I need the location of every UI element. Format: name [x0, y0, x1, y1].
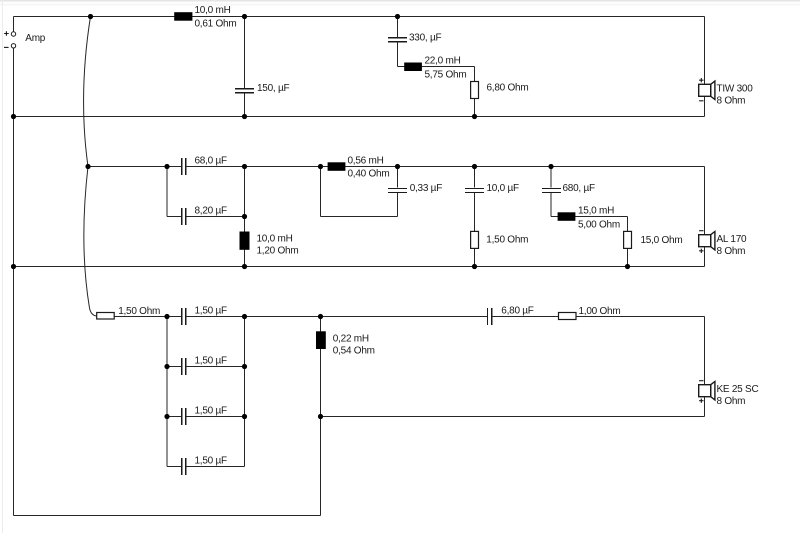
node junction mid return / 15ohm branch	[625, 264, 630, 269]
wire speaker return rail	[321, 416, 705, 418]
node junction feed curve / mid rail	[85, 164, 90, 169]
svg-text:1,50 µF: 1,50 µF	[195, 305, 228, 316]
wire bottom bus	[14, 515, 321, 517]
capacitor 1,50uF row4	[181, 458, 183, 475]
wire right bus mid section	[704, 167, 706, 267]
node junction caps right row2	[242, 364, 247, 369]
speaker TIW 300	[711, 81, 715, 99]
svg-text:1,50 µF: 1,50 µF	[195, 405, 228, 416]
speaker TIW minus sign	[699, 100, 703, 102]
capacitor 680uF	[542, 187, 561, 189]
node junction caps left row2	[164, 364, 169, 369]
wire left bus upper	[13, 17, 15, 32]
wire left bus lower	[13, 48, 15, 516]
svg-text:150, µF: 150, µF	[257, 83, 290, 94]
wire 0.33 cap vert	[397, 167, 399, 188]
amp plus sign	[4, 31, 9, 36]
wire cap row2	[167, 366, 181, 368]
svg-text:0,56 mH: 0,56 mH	[348, 155, 384, 166]
resistor 15,0 Ohm	[624, 231, 632, 248]
node junction minus bus / mid return rail	[11, 264, 16, 269]
node junction top rail / 330uF branch	[395, 14, 400, 19]
svg-text:5,75 Ohm: 5,75 Ohm	[425, 70, 467, 81]
resistor 1,50 Ohm mid	[471, 231, 479, 248]
speaker AL minus sign	[699, 230, 703, 232]
capacitor 1,50uF row1	[181, 308, 183, 325]
svg-text:15,0 mH: 15,0 mH	[578, 205, 614, 216]
svg-text:68,0 µF: 68,0 µF	[195, 155, 228, 166]
wire cap row3	[167, 416, 181, 418]
svg-text:5,00 Ohm: 5,00 Ohm	[578, 219, 620, 230]
resistor 1,50 Ohm horizontal	[97, 313, 115, 320]
svg-text:1,50 µF: 1,50 µF	[195, 455, 228, 466]
speaker TIW plus sign	[699, 78, 703, 82]
svg-text:1,50 µF: 1,50 µF	[195, 355, 228, 366]
wire 680uF branch	[550, 167, 552, 188]
wire caps array left vert	[166, 317, 168, 467]
wire right bus bottom section	[704, 317, 706, 417]
svg-text:1,50 Ohm: 1,50 Ohm	[486, 235, 528, 246]
resistor 6,80 Ohm	[471, 82, 479, 99]
wire curved feed	[84, 17, 97, 317]
node junction 8.2uF row / 10mH branch	[242, 214, 247, 219]
node junction mid rail / 10uF branch	[472, 164, 477, 169]
svg-text:8 Ohm: 8 Ohm	[717, 396, 746, 407]
resistor 1,00 Ohm horizontal	[559, 313, 577, 320]
svg-text:10,0 mH: 10,0 mH	[195, 5, 231, 16]
inductor L 0,22mH 0,54Ohm vertical	[316, 331, 326, 349]
node junction caps right row3	[242, 414, 247, 419]
speaker AL 170	[711, 232, 715, 250]
wire 0.33 loop left vert	[320, 167, 322, 217]
capacitor 330uF	[388, 37, 407, 39]
wire top rail	[14, 16, 705, 18]
svg-text:330, µF: 330, µF	[409, 32, 442, 43]
capacitor 6,80uF	[486, 308, 488, 325]
svg-text:1,50 Ohm: 1,50 Ohm	[118, 306, 160, 317]
node junction bottom rail / caps left	[164, 314, 169, 319]
wire mid rail	[88, 166, 181, 168]
inductor L 22,0mH 5,75Ohm	[404, 63, 422, 72]
window border left	[2, 0, 4, 533]
svg-text:TIW 300: TIW 300	[717, 84, 754, 95]
node junction top rail / feed curve	[88, 14, 93, 19]
node junction top rail / 150uF branch	[242, 14, 247, 19]
svg-text:Amp: Amp	[25, 33, 46, 44]
speaker KE 25 SC	[711, 382, 715, 400]
node junction top return / 150uF branch	[242, 114, 247, 119]
svg-text:KE 25 SC: KE 25 SC	[717, 384, 759, 395]
capacitor 150uF	[235, 88, 254, 90]
svg-text:6,80 µF: 6,80 µF	[501, 306, 534, 317]
wire 10mH branch	[244, 167, 246, 267]
wire caps array right vert	[244, 317, 246, 467]
node junction caps left row3	[164, 414, 169, 419]
node junction mid rail / 68uF-8.2uF left	[164, 164, 169, 169]
speaker AL plus sign	[699, 249, 703, 253]
capacitor 1,50uF row2	[181, 358, 183, 375]
svg-text:10,0 µF: 10,0 µF	[487, 183, 520, 194]
wire 6.8ohm branch	[474, 67, 476, 117]
node junction 0.22mH branch / KE return rail	[318, 414, 323, 419]
node junction mid return / 10mH branch	[242, 264, 247, 269]
wire 0.22mH branch	[320, 317, 322, 516]
node junction mid rail / 0.56mH left	[318, 164, 323, 169]
node junction mid rail / 0.33uF right	[395, 164, 400, 169]
wire top-section bottom rail	[14, 116, 705, 118]
node junction bottom rail / caps right	[242, 314, 247, 319]
inductor L 0,56mH	[328, 162, 346, 171]
inductor L 10,0mH 0,61Ohm	[174, 12, 192, 21]
svg-text:22,0 mH: 22,0 mH	[425, 56, 461, 67]
svg-text:0,40 Ohm: 0,40 Ohm	[348, 168, 390, 179]
svg-text:0,33 µF: 0,33 µF	[410, 183, 443, 194]
wire 8.2uF row	[167, 216, 181, 218]
wire right bus top section	[704, 17, 706, 117]
wire 15ohm branch	[627, 217, 629, 267]
amp minus sign	[4, 46, 9, 48]
node junction mid rail / 680uF branch	[548, 164, 553, 169]
wire 330uF branch	[397, 17, 399, 38]
svg-text:1,20 Ohm: 1,20 Ohm	[257, 246, 299, 257]
capacitor 0,33uF	[388, 187, 407, 189]
speaker KE plus sign	[699, 399, 703, 403]
capacitor 1,50uF row3	[181, 408, 183, 425]
amp terminals	[11, 32, 15, 36]
svg-text:0,54 Ohm: 0,54 Ohm	[333, 345, 375, 356]
svg-text:6,80 Ohm: 6,80 Ohm	[487, 83, 529, 94]
svg-text:AL 170: AL 170	[717, 234, 748, 245]
svg-text:8 Ohm: 8 Ohm	[717, 96, 746, 107]
speaker KE minus sign	[699, 380, 703, 382]
wire mid-section bottom rail	[14, 266, 705, 268]
node junction bottom rail / 0.22mH branch	[318, 314, 323, 319]
inductor L 15,0mH 5,00Ohm	[558, 212, 576, 221]
node junction mid rail / 68uF right	[242, 164, 247, 169]
wire 68uF left vert	[166, 167, 168, 217]
svg-text:10,0 mH: 10,0 mH	[257, 234, 293, 245]
svg-text:15,0 Ohm: 15,0 Ohm	[641, 235, 683, 246]
wire bottom rail	[114, 316, 181, 318]
capacitor 68uF	[181, 158, 183, 175]
wire cap row4	[167, 466, 181, 468]
wire 680uF-15mH row	[551, 216, 628, 218]
inductor L 10,0mH 1,20Ohm vertical	[240, 232, 250, 250]
wire 10uF branch	[474, 167, 476, 188]
capacitor 8,20uF	[181, 208, 183, 225]
svg-text:8,20 µF: 8,20 µF	[195, 205, 228, 216]
wire 22mH row	[398, 66, 475, 68]
window border top	[0, 0, 800, 2]
wire 150uF branch	[244, 17, 246, 88]
wire 0.33uF loop bottom	[321, 216, 398, 218]
svg-text:0,61 Ohm: 0,61 Ohm	[195, 18, 237, 29]
node junction minus bus / top return rail	[11, 114, 16, 119]
capacitor 10,0uF	[465, 187, 484, 189]
svg-text:680, µF: 680, µF	[563, 183, 596, 194]
svg-text:1,00 Ohm: 1,00 Ohm	[579, 306, 621, 317]
svg-text:0,22 mH: 0,22 mH	[333, 333, 369, 344]
svg-text:8 Ohm: 8 Ohm	[717, 246, 746, 257]
node junction top return / 6.8ohm branch	[472, 114, 477, 119]
node junction mid return / 1.5ohm branch	[472, 264, 477, 269]
